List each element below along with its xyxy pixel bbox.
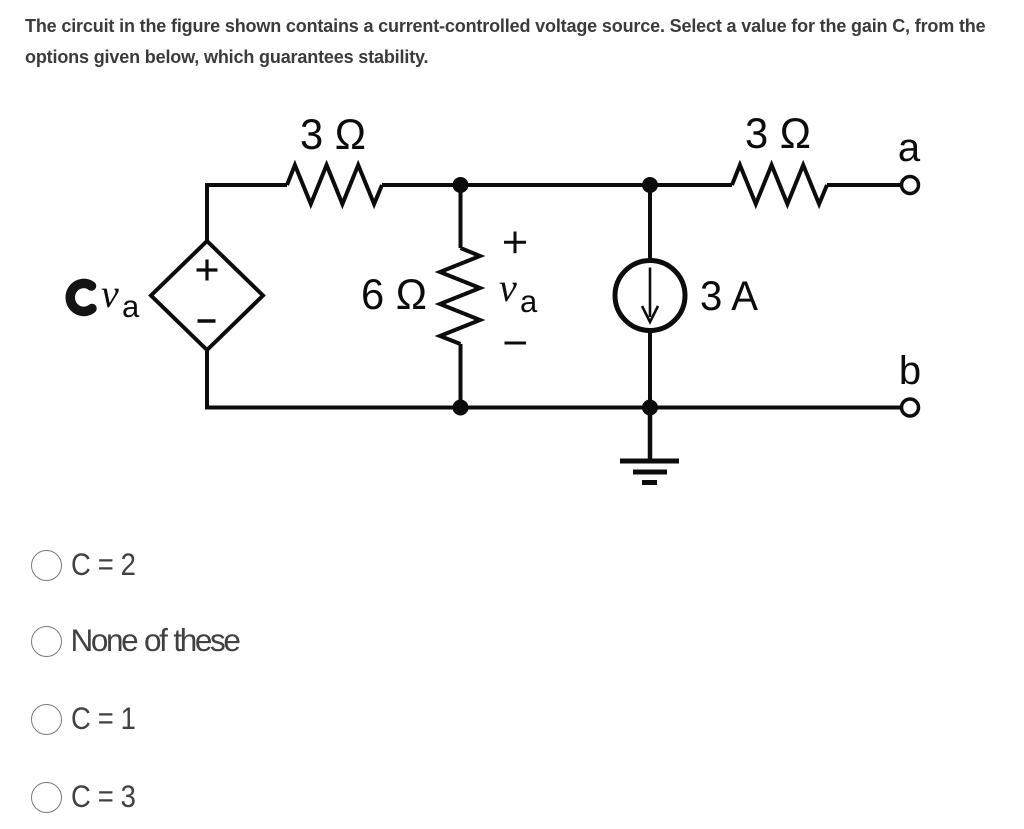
current source I1 3A (circle): [615, 261, 685, 331]
wire: current source bottom to bottom rail: [648, 330, 652, 408]
wire: node B down to current source I1: [648, 185, 652, 261]
wire: bottom rail from dependent source to terminal b: [205, 406, 900, 410]
label gain C (bold script C of Cva): [70, 283, 92, 311]
resistor R3 3 ohm (top-right, horizontal zigzag): [732, 165, 827, 204]
terminal a (open circle): [902, 177, 919, 194]
answer option: C = 3: [30, 781, 32, 783]
label + polarity inside diamond: [197, 268, 218, 271]
label − polarity inside diamond: [198, 319, 216, 322]
current source I1 arrow (downward): [649, 268, 652, 318]
label − of va (below va): [505, 342, 527, 345]
ground (earth symbol below node D): [648, 408, 653, 462]
svg-text:a: a: [122, 289, 140, 324]
svg-text:v: v: [101, 271, 119, 316]
resistor R2 6 ohm (vertical zigzag): [440, 248, 480, 344]
wire: top-left corner from dependent source up and right to R1: [207, 185, 287, 243]
svg-text:v: v: [499, 265, 517, 310]
dependent source U1: current-controlled voltage source diamond (Cva): [151, 241, 263, 350]
svg-text:a: a: [898, 126, 921, 170]
answer option: C = 1: [30, 703, 32, 705]
node C junction dot (bottom of 6-ohm branch): [453, 400, 469, 416]
node D junction dot (bottom of current source branch / ground): [642, 400, 658, 416]
wire: R1 to node B through node A (top middle): [382, 183, 732, 187]
node B junction dot (top of current source branch): [642, 177, 658, 193]
svg-text:3 Ω: 3 Ω: [300, 111, 366, 159]
terminal b (open circle): [902, 399, 919, 416]
svg-text:6 Ω: 6 Ω: [361, 271, 427, 319]
answer option: None of these: [30, 625, 32, 627]
wire: diamond bottom vertex down to bottom rail: [205, 350, 209, 408]
wire: R2 bottom to bottom rail: [459, 344, 463, 408]
svg-text:b: b: [899, 349, 921, 393]
wire: R3 to terminal a: [827, 183, 900, 187]
node A junction dot (top of 6-ohm branch): [453, 177, 469, 193]
svg-text:3 Ω: 3 Ω: [745, 110, 811, 158]
answer option: C = 2: [30, 549, 32, 551]
resistor R1 3 ohm (top-left, horizontal zigzag): [287, 165, 382, 204]
wire: node A down to R2 (6-ohm): [459, 185, 463, 248]
label + of va (above va, right of R2): [504, 241, 526, 244]
question text: [25, 11, 985, 72]
svg-text:3 A: 3 A: [700, 272, 758, 319]
svg-text:a: a: [520, 284, 538, 319]
